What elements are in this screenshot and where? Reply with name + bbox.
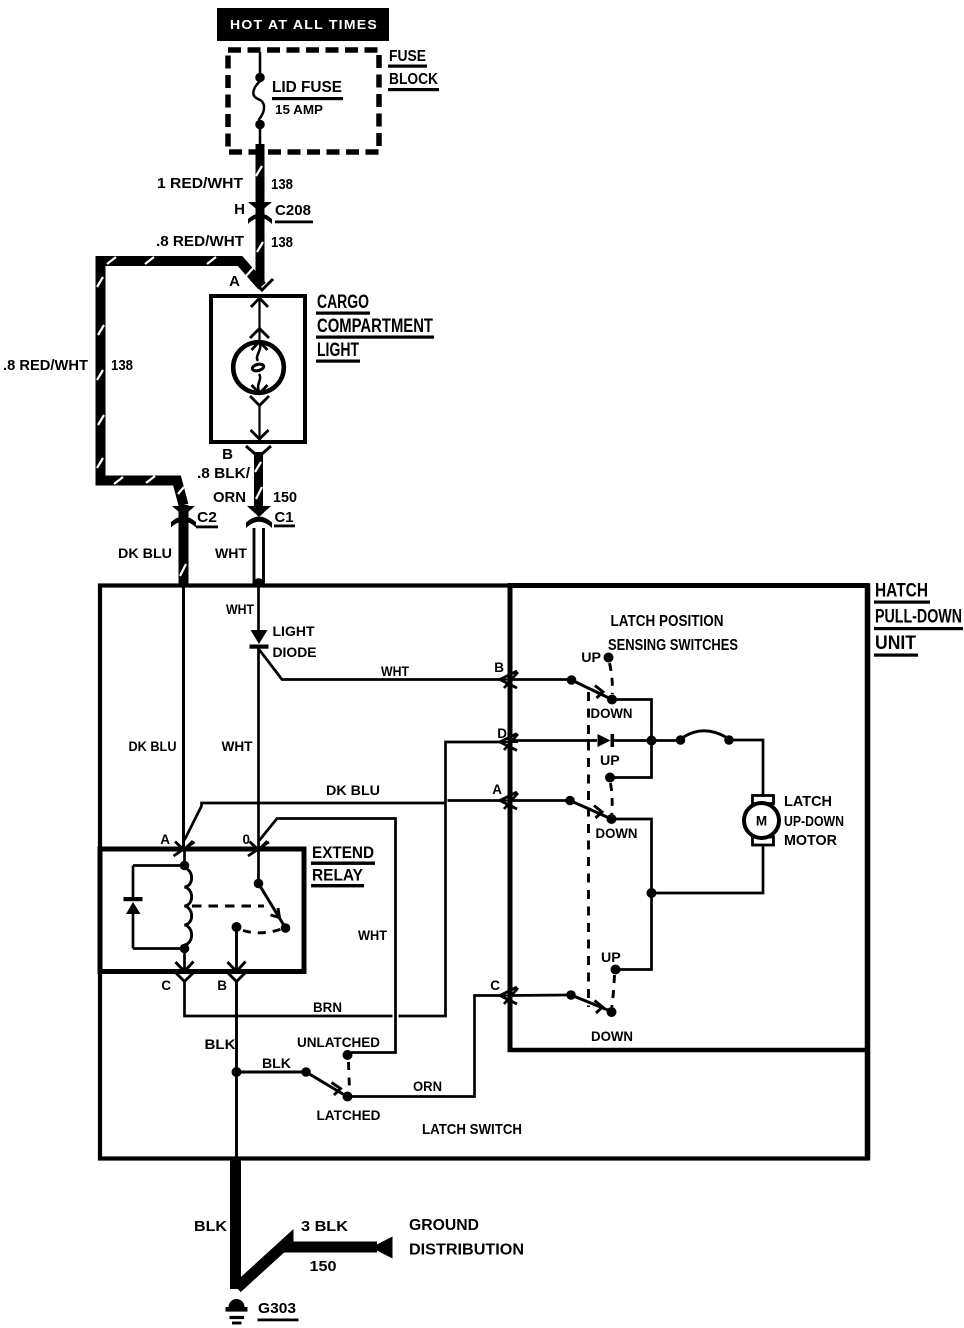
label EXTEND RELAY	[311, 844, 375, 887]
label DK BLU / WHT (above box)	[118, 546, 247, 562]
svg-text:B: B	[494, 660, 504, 675]
svg-text:A: A	[229, 273, 240, 290]
label 150 / C1	[273, 489, 297, 527]
svg-text:138: 138	[271, 234, 293, 251]
svg-text:DIODE: DIODE	[273, 645, 317, 661]
svg-text:B: B	[222, 446, 233, 463]
cargo compartment light box	[211, 296, 305, 442]
mechanical linkage (dashed vertical)	[587, 692, 590, 1007]
svg-text:UNLATCHED: UNLATCHED	[297, 1035, 380, 1051]
svg-text:BLK: BLK	[194, 1218, 227, 1235]
wire: J1 to motor top via loop jumper	[652, 731, 764, 796]
svg-text:C1: C1	[275, 509, 294, 526]
terminal D (latch box)	[497, 726, 518, 751]
wire: thick loop .8 RED/WHT 138 (left side)	[97, 257, 262, 586]
label .8 BLK/ ORN	[197, 465, 251, 506]
svg-text:A: A	[160, 832, 170, 847]
svg-text:WHT: WHT	[222, 739, 253, 755]
hatch pull-down unit outer box	[100, 586, 868, 1159]
connector C2	[171, 506, 218, 528]
label 1 RED/WHT 138	[157, 175, 293, 193]
label HATCH PULL-DOWN UNIT	[874, 581, 963, 657]
svg-text:1 RED/WHT: 1 RED/WHT	[157, 175, 243, 192]
label DK BLU / WHT (mid box)	[129, 739, 253, 755]
relay terminal A	[160, 832, 194, 856]
svg-text:HOT AT ALL TIMES: HOT AT ALL TIMES	[230, 17, 378, 32]
label LIGHT DIODE	[273, 624, 317, 661]
svg-text:150: 150	[273, 489, 297, 506]
switch S3 (bottom, from terminal C)	[510, 950, 633, 1045]
terminal C (latch box)	[490, 978, 518, 1004]
node J2	[647, 888, 657, 898]
wire: WHT from relay O up over to unlatched contact	[259, 819, 396, 1056]
ground G303	[226, 1299, 299, 1323]
svg-text:BRN: BRN	[313, 1000, 342, 1016]
svg-text:G303: G303	[258, 1300, 296, 1317]
relay terminal B	[217, 962, 245, 994]
svg-text:DK BLU: DK BLU	[118, 546, 172, 562]
wire: WHT branch from diode to latch box terminal B	[260, 650, 501, 680]
svg-text:CARGO: CARGO	[317, 292, 369, 313]
svg-text:EXTEND: EXTEND	[312, 844, 374, 862]
relay terminal C	[161, 962, 193, 994]
svg-text:LATCH POSITION: LATCH POSITION	[611, 613, 724, 630]
svg-text:UP: UP	[601, 950, 621, 966]
fuse LID FUSE 15 AMP	[253, 52, 264, 147]
svg-text:LIGHT: LIGHT	[317, 340, 359, 361]
svg-text:SENSING SWITCHES: SENSING SWITCHES	[608, 637, 738, 654]
wire: DK BLU from relay A to latch box terminal A (with crossover jog)	[185, 783, 501, 840]
inner latch switch box divider (left edge)	[508, 584, 513, 1051]
relay clamp diode D2	[124, 866, 184, 949]
svg-text:BLK: BLK	[262, 1056, 292, 1072]
wire: BRN from relay C to latch box terminal D	[185, 742, 501, 1016]
extend relay box	[100, 849, 304, 972]
wire: S1 down-contact to node J1	[612, 700, 652, 738]
cargo compartment light lamp	[233, 298, 284, 439]
wire: thick .8 BLK/ORN 150	[255, 452, 262, 508]
svg-text:15 AMP: 15 AMP	[275, 102, 323, 117]
relay switch armature	[232, 850, 291, 971]
svg-text:LATCH: LATCH	[784, 793, 832, 810]
latch up-down motor M	[744, 796, 779, 846]
svg-text:A: A	[492, 782, 502, 797]
svg-text:UP: UP	[600, 753, 620, 769]
svg-text:UP: UP	[581, 650, 601, 666]
svg-text:WHT: WHT	[381, 664, 409, 680]
svg-text:DISTRIBUTION: DISTRIBUTION	[409, 1242, 524, 1259]
terminal B (latch box)	[494, 660, 518, 688]
svg-text:H: H	[234, 201, 245, 218]
svg-text:C: C	[490, 978, 500, 993]
label LID FUSE	[272, 79, 343, 117]
fuse block dashed box	[228, 50, 379, 152]
svg-text:LIGHT: LIGHT	[273, 624, 315, 640]
label GROUND DISTRIBUTION	[409, 1217, 524, 1259]
label .8 RED/WHT 138 (left)	[3, 357, 133, 374]
wire: ORN from latched contact to latch box terminal C	[351, 996, 501, 1097]
svg-text:MOTOR: MOTOR	[784, 832, 837, 849]
label FUSE BLOCK	[388, 48, 439, 91]
wire: BLK from relay B down	[205, 981, 304, 1158]
label .8 RED/WHT 138	[156, 233, 293, 251]
svg-text:.8 RED/WHT: .8 RED/WHT	[156, 233, 244, 250]
label HOT AT ALL TIMES	[217, 8, 389, 41]
label LATCH UP-DOWN MOTOR	[784, 793, 844, 849]
inner latch switch box divider (bottom edge)	[508, 1048, 870, 1053]
svg-text:HATCH: HATCH	[875, 581, 928, 602]
terminal A (latch box)	[492, 782, 518, 809]
label UNLATCHED / LATCHED	[297, 1035, 381, 1124]
svg-text:150: 150	[310, 1258, 337, 1275]
svg-text:DK BLU: DK BLU	[129, 739, 177, 755]
svg-text:DK BLU: DK BLU	[326, 783, 380, 799]
svg-text:ORN: ORN	[413, 1079, 442, 1095]
svg-text:WHT: WHT	[358, 928, 387, 944]
svg-text:0: 0	[242, 832, 250, 847]
svg-text:DOWN: DOWN	[591, 1029, 633, 1045]
svg-text:LATCHED: LATCHED	[317, 1108, 381, 1124]
svg-text:.8 BLK/: .8 BLK/	[197, 465, 251, 482]
svg-text:LATCH SWITCH: LATCH SWITCH	[422, 1121, 522, 1138]
relay mechanical link (dashed)	[192, 906, 283, 933]
connector C208	[234, 201, 313, 224]
svg-text:DOWN: DOWN	[591, 706, 633, 722]
svg-text:UP-DOWN: UP-DOWN	[784, 813, 844, 830]
switch S2 (middle, from terminal A)	[510, 753, 638, 842]
svg-text:DOWN: DOWN	[596, 826, 638, 842]
svg-text:.8 RED/WHT: .8 RED/WHT	[3, 357, 88, 374]
svg-text:C208: C208	[275, 202, 311, 219]
svg-text:138: 138	[271, 176, 293, 193]
svg-text:ORN: ORN	[213, 489, 246, 506]
wire: thick BLK to ground	[194, 1158, 236, 1289]
svg-text:RELAY: RELAY	[312, 867, 363, 885]
svg-text:BLK: BLK	[205, 1037, 237, 1053]
svg-text:UNIT: UNIT	[875, 633, 916, 654]
wire: hollow WHT wire to unit	[253, 528, 265, 584]
node A junction with arrowhead	[229, 273, 273, 290]
relay coil L1	[180, 850, 192, 971]
svg-text:C: C	[161, 978, 171, 993]
wire: S2 up-contact to node J1	[615, 744, 652, 778]
wire: WHT from C1 down to light diode	[257, 586, 260, 630]
svg-text:M: M	[756, 814, 767, 829]
wire: J2 down to S3 up-contact	[619, 893, 652, 970]
svg-text:PULL-DOWN: PULL-DOWN	[875, 607, 962, 628]
wire: DK BLU from C2 down to relay terminal A	[182, 586, 185, 849]
label CARGO COMPARTMENT LIGHT	[316, 292, 434, 363]
wire: WHT from diode to relay terminal O	[257, 648, 260, 849]
svg-text:138: 138	[111, 357, 133, 374]
svg-text:FUSE: FUSE	[389, 48, 426, 65]
wire: S2 down-contact to node J2	[612, 819, 652, 889]
switch S1 (top, from terminal B)	[510, 650, 633, 722]
diode D3 (in terminal D branch)	[510, 734, 648, 747]
node J1	[647, 736, 657, 746]
relay terminal O	[242, 832, 269, 856]
wire: thick 3 BLK 150 to ground distribution	[237, 1218, 393, 1288]
svg-text:GROUND: GROUND	[409, 1217, 479, 1234]
svg-text:COMPARTMENT: COMPARTMENT	[317, 316, 433, 337]
node B (cargo light bottom terminal)	[222, 446, 271, 463]
svg-text:LID FUSE: LID FUSE	[272, 79, 342, 96]
label LATCH POSITION SENSING SWITCHES	[608, 613, 738, 654]
light diode D1	[250, 630, 269, 649]
latch switch	[301, 1050, 352, 1102]
svg-text:B: B	[217, 978, 227, 993]
wire: J2 to motor bottom	[652, 844, 764, 893]
svg-text:WHT: WHT	[226, 602, 254, 618]
inner latch switch box top edge	[508, 583, 870, 588]
wire: thick feed 138 from fuse to node A	[256, 144, 263, 284]
connector C1	[246, 506, 272, 528]
svg-text:BLOCK: BLOCK	[389, 71, 438, 88]
svg-text:3 BLK: 3 BLK	[301, 1218, 348, 1235]
svg-text:C2: C2	[197, 509, 217, 526]
svg-text:WHT: WHT	[215, 546, 247, 562]
inner latch switch box right edge (thick)	[865, 584, 871, 1161]
